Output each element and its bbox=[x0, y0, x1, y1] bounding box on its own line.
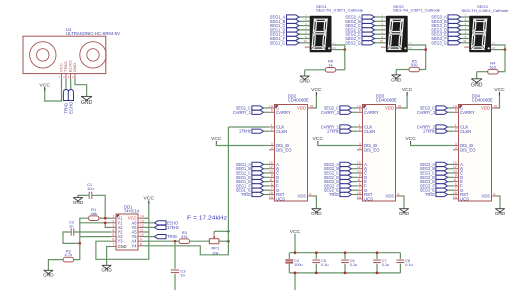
svg-text:CD4026BE: CD4026BE bbox=[376, 98, 397, 103]
svg-text:1: 1 bbox=[112, 215, 114, 219]
svg-text:GND: GND bbox=[43, 273, 54, 279]
svg-text:1n: 1n bbox=[69, 224, 73, 229]
svg-text:74HC14: 74HC14 bbox=[124, 208, 140, 213]
svg-text:CLKN: CLKN bbox=[276, 129, 287, 134]
svg-text:ECHO: ECHO bbox=[69, 60, 73, 72]
svg-text:TRIG: TRIG bbox=[167, 234, 177, 239]
svg-text:8: 8 bbox=[140, 242, 142, 246]
svg-text:9: 9 bbox=[140, 238, 142, 242]
svg-text:0.1u: 0.1u bbox=[321, 263, 328, 267]
svg-text:13: 13 bbox=[140, 219, 144, 223]
svg-text:16: 16 bbox=[494, 104, 498, 108]
svg-text:DIS_EO: DIS_EO bbox=[364, 147, 380, 152]
svg-text:CARRY_2: CARRY_2 bbox=[321, 110, 340, 115]
svg-text:VCC: VCC bbox=[60, 63, 64, 72]
svg-text:16: 16 bbox=[310, 104, 314, 108]
svg-text:VSS: VSS bbox=[386, 194, 395, 199]
svg-text:100u: 100u bbox=[294, 263, 302, 267]
svg-text:TRIG: TRIG bbox=[329, 192, 339, 197]
svg-text:ULTRASONIC-HC-SR04-5V: ULTRASONIC-HC-SR04-5V bbox=[66, 31, 120, 36]
svg-text:4.7k: 4.7k bbox=[65, 252, 73, 257]
svg-text:CARRY_1: CARRY_1 bbox=[233, 110, 252, 115]
svg-text:17kHz: 17kHz bbox=[327, 129, 339, 134]
svg-text:4: 4 bbox=[359, 146, 361, 150]
svg-text:510: 510 bbox=[490, 64, 497, 69]
svg-text:4: 4 bbox=[271, 146, 273, 150]
svg-text:5: 5 bbox=[359, 109, 361, 113]
svg-text:Y4: Y4 bbox=[131, 243, 137, 248]
svg-text:14: 14 bbox=[269, 195, 273, 199]
svg-text:48k: 48k bbox=[90, 211, 96, 216]
svg-text:2: 2 bbox=[359, 128, 361, 132]
svg-text:14: 14 bbox=[140, 215, 144, 219]
svg-text:F = 17.24kHz: F = 17.24kHz bbox=[187, 215, 227, 221]
svg-text:SEG1_G: SEG1_G bbox=[270, 40, 286, 45]
svg-text:0.1u: 0.1u bbox=[405, 263, 412, 267]
svg-text:17kHz: 17kHz bbox=[423, 129, 435, 134]
svg-text:SEG-TH_0.56*1_Cathode: SEG-TH_0.56*1_Cathode bbox=[462, 8, 509, 13]
svg-text:CD4026BE: CD4026BE bbox=[288, 98, 309, 103]
svg-text:SEG-TH_0.56*1_Cathode: SEG-TH_0.56*1_Cathode bbox=[316, 8, 363, 13]
svg-text:10: 10 bbox=[140, 233, 144, 237]
svg-text:DIS_EO: DIS_EO bbox=[276, 147, 292, 152]
svg-text:12: 12 bbox=[140, 224, 144, 228]
svg-text:UCS: UCS bbox=[276, 196, 285, 201]
svg-text:11: 11 bbox=[140, 229, 144, 233]
svg-text:CARRY: CARRY bbox=[460, 110, 475, 115]
svg-text:VSS: VSS bbox=[298, 194, 307, 199]
svg-text:17kHz: 17kHz bbox=[167, 225, 179, 230]
svg-text:8: 8 bbox=[494, 192, 496, 196]
svg-text:TRIG: TRIG bbox=[425, 192, 435, 197]
svg-text:7: 7 bbox=[112, 243, 114, 247]
svg-text:510: 510 bbox=[411, 62, 418, 67]
svg-text:14: 14 bbox=[357, 195, 361, 199]
svg-text:ECHO: ECHO bbox=[69, 101, 74, 114]
svg-text:GND: GND bbox=[73, 200, 84, 206]
svg-text:GND: GND bbox=[299, 78, 310, 84]
svg-text:5: 5 bbox=[271, 109, 273, 113]
svg-text:VDD: VDD bbox=[385, 106, 394, 111]
svg-text:1k: 1k bbox=[328, 62, 332, 67]
svg-text:GND: GND bbox=[73, 62, 77, 72]
svg-text:DIS_EO: DIS_EO bbox=[460, 147, 476, 152]
svg-text:GND: GND bbox=[391, 77, 402, 83]
svg-text:TRIG: TRIG bbox=[241, 192, 251, 197]
svg-text:8: 8 bbox=[310, 192, 312, 196]
svg-text:0.1u: 0.1u bbox=[350, 263, 357, 267]
svg-text:VDD: VDD bbox=[481, 106, 490, 111]
svg-text:6: 6 bbox=[112, 238, 114, 242]
svg-text:0.1u: 0.1u bbox=[382, 263, 389, 267]
svg-text:8: 8 bbox=[398, 192, 400, 196]
svg-text:4: 4 bbox=[455, 146, 457, 150]
svg-text:UCS: UCS bbox=[460, 196, 469, 201]
svg-text:GND: GND bbox=[118, 244, 127, 249]
svg-text:17kHz: 17kHz bbox=[239, 129, 251, 134]
svg-text:GND: GND bbox=[399, 211, 410, 217]
svg-text:5: 5 bbox=[455, 109, 457, 113]
svg-text:CD4026BE: CD4026BE bbox=[472, 98, 493, 103]
svg-text:UCS: UCS bbox=[364, 196, 373, 201]
svg-text:2: 2 bbox=[271, 128, 273, 132]
svg-text:2: 2 bbox=[455, 128, 457, 132]
svg-text:3: 3 bbox=[112, 224, 114, 228]
svg-text:SEG-TH_0.56*1_Cathode: SEG-TH_0.56*1_Cathode bbox=[393, 8, 440, 13]
svg-text:CARRY: CARRY bbox=[364, 110, 379, 115]
svg-text:1n: 1n bbox=[180, 273, 184, 278]
svg-text:14: 14 bbox=[453, 195, 457, 199]
svg-text:CARRY: CARRY bbox=[276, 110, 291, 115]
svg-text:GND: GND bbox=[495, 211, 506, 217]
svg-text:SEG3_G: SEG3_G bbox=[431, 40, 447, 45]
svg-text:16: 16 bbox=[398, 104, 402, 108]
svg-text:SEG2_G: SEG2_G bbox=[345, 40, 361, 45]
svg-text:CARRY_3: CARRY_3 bbox=[417, 110, 436, 115]
svg-text:GND: GND bbox=[311, 211, 322, 217]
svg-text:CLKN: CLKN bbox=[364, 129, 375, 134]
svg-text:GND: GND bbox=[81, 100, 93, 106]
svg-text:CLKN: CLKN bbox=[460, 129, 471, 134]
svg-text:10u: 10u bbox=[87, 186, 94, 191]
svg-text:TRIG: TRIG bbox=[64, 61, 68, 72]
svg-text:VSS: VSS bbox=[482, 194, 491, 199]
svg-text:2: 2 bbox=[112, 219, 114, 223]
svg-text:Y3: Y3 bbox=[118, 239, 124, 244]
svg-text:47k: 47k bbox=[181, 234, 187, 239]
svg-text:5: 5 bbox=[112, 233, 114, 237]
svg-text:GND: GND bbox=[101, 268, 112, 274]
svg-text:GND: GND bbox=[471, 82, 483, 88]
svg-text:VDD: VDD bbox=[297, 106, 306, 111]
svg-text:4: 4 bbox=[112, 229, 114, 233]
